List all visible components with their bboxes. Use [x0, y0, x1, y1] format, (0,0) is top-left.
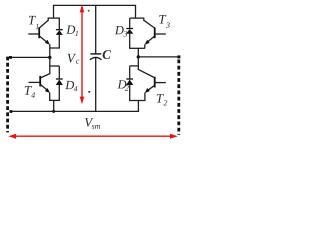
label D4 — [65, 81, 74, 89]
transistor T2 — [138, 69, 154, 77]
diode D2 — [129, 66, 131, 79]
transistor T3 — [154, 27, 156, 38]
label Vc — [68, 54, 77, 63]
wire T3 emitter drop — [144, 44, 146, 48]
wire T3 collector jog — [144, 18, 155, 28]
label D3 — [115, 26, 124, 34]
wire left bottom drop — [53, 100, 55, 111]
wire left top bar — [48, 17, 60, 19]
wire left AC terminal — [9, 56, 50, 58]
label Vsm — [85, 118, 94, 127]
wire right AC terminal — [138, 56, 179, 58]
wire right bottom drop — [137, 101, 139, 113]
wire D2 top bar — [130, 65, 139, 67]
terminal left dashed — [6, 57, 9, 133]
transistor T4 — [41, 74, 50, 78]
diode D3 — [129, 18, 131, 28]
label T1 — [29, 16, 36, 25]
wire D4 top bar — [50, 65, 60, 67]
wire T1 collector jog — [39, 18, 48, 28]
arrow Vsm red — [15, 135, 172, 137]
label T4 — [25, 86, 32, 95]
label D1 — [66, 26, 75, 34]
transistor T1 — [38, 27, 40, 38]
polarity plus — [88, 10, 90, 12]
wire left bottom bar — [49, 99, 60, 101]
wire left main upper — [49, 44, 51, 57]
wire left lower stub — [49, 57, 51, 74]
label T2 — [157, 94, 164, 103]
node left midpoint — [48, 56, 51, 59]
label C — [103, 50, 111, 59]
arrow Vc red — [81, 10, 83, 98]
capacitor C — [90, 53, 101, 55]
wire right lower stub — [137, 57, 139, 70]
wire top rail with risers — [54, 5, 136, 18]
wire T4 emitter drop — [49, 93, 51, 101]
wire right bottom bar — [129, 100, 145, 102]
diode D1 — [58, 18, 60, 29]
wire right mid bar — [129, 47, 145, 49]
diode D4 — [58, 66, 60, 79]
terminal right dashed — [177, 60, 180, 135]
node right midpoint — [137, 55, 140, 58]
wire bottom rail — [10, 110, 139, 112]
label T3 — [159, 15, 166, 24]
wire T2 emitter drop — [144, 93, 146, 101]
label D2 — [117, 80, 126, 88]
polarity minus — [88, 91, 90, 93]
wire right top bar — [130, 17, 145, 19]
wire capacitor top branch — [95, 5, 97, 53]
wire right mid drop — [137, 48, 139, 57]
